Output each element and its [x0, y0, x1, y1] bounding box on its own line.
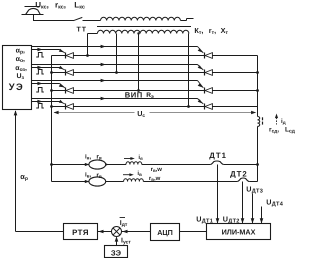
- block ИЛИ-МАХ: [207, 224, 271, 240]
- transformer tap wire 3: [138, 34, 140, 91]
- motor branch wire row B: [52, 181, 89, 183]
- thyristor left arm row 3: [65, 88, 67, 94]
- right bus wire lower: [257, 126, 259, 181]
- thyristor left arm row 2: [65, 70, 67, 76]
- cathode wire row 4: [52, 106, 66, 108]
- wire pantograph drop: [33, 15, 35, 21]
- cathode wire row 2: [52, 72, 66, 74]
- svg-text:РТЯ: РТЯ: [72, 228, 89, 237]
- svg-text:iв,: iв,: [85, 172, 92, 179]
- thyristor left arm row 4: [65, 104, 67, 110]
- wire to switch: [33, 20, 74, 22]
- gate lead left thyristor row 3: [60, 84, 65, 88]
- block РТЯ: [64, 224, 98, 240]
- right bus wire: [257, 56, 259, 117]
- svg-text:αр,: αр,: [16, 48, 25, 56]
- pantograph: [26, 8, 41, 14]
- field winding row A: [126, 162, 142, 165]
- wire armature to field coil row B: [106, 181, 124, 183]
- pulse symbol row 3: [36, 88, 44, 93]
- transformer TT primary winding: [101, 17, 181, 20]
- svg-text:rв,w: rв,w: [149, 176, 161, 182]
- output wire row 1: [212, 55, 257, 57]
- wire DT2 to bus: [249, 181, 257, 183]
- switch: [73, 17, 82, 20]
- block АЦП: [151, 224, 180, 241]
- wire UДТ4: [261, 207, 263, 224]
- thyristor right arm row 3: [204, 88, 206, 94]
- thyristor right arm row 1: [204, 53, 206, 59]
- transformer core: [97, 26, 191, 28]
- output wire row 3: [212, 90, 257, 92]
- cathode wire row 1: [52, 55, 66, 57]
- motor branch wire row A: [52, 164, 89, 166]
- svg-text:iв: iв: [137, 170, 142, 177]
- gate lead left thyristor row 2: [60, 68, 65, 70]
- svg-text:Rэ: Rэ: [146, 92, 154, 100]
- current arrow iя row A: [124, 158, 132, 160]
- thyristor right arm row 2: [204, 70, 206, 76]
- control line row 4: [32, 98, 198, 100]
- wire UДТ2 from ДТ2: [242, 182, 244, 224]
- wire switch to transformer: [83, 20, 101, 22]
- svg-text:iя: iя: [138, 154, 143, 161]
- control line row 1: [32, 46, 198, 48]
- thyristor left arm row 1: [65, 53, 67, 59]
- svg-text:αоз,: αоз,: [15, 65, 27, 73]
- cathode wire row 3: [52, 90, 66, 92]
- output wire row 2: [212, 72, 257, 74]
- svg-text:αо,: αо,: [16, 56, 25, 64]
- gate lead left thyristor row 4: [60, 102, 65, 104]
- current sensor ДТ1: [210, 161, 223, 165]
- svg-text:Uз: Uз: [16, 73, 24, 81]
- motor M2 armature: [89, 177, 106, 186]
- field winding row B: [124, 179, 144, 182]
- anode wire row 3: [73, 90, 204, 92]
- svg-text:Iуст: Iуст: [121, 237, 131, 245]
- svg-text:Iдт: Iдт: [120, 220, 128, 228]
- gate pulse line row 3: [32, 83, 60, 85]
- left bus wire: [51, 56, 53, 182]
- svg-text:rв,w: rв,w: [151, 167, 163, 173]
- label iд with arrow: [276, 118, 278, 125]
- wire АЦП to comparator: [122, 231, 151, 233]
- wire ИЛИ-МАХ to АЦП: [180, 231, 207, 233]
- gate pulse line row 1: [32, 49, 60, 51]
- svg-text:АЦП: АЦП: [157, 228, 173, 237]
- feedback wire alpha-r: [15, 111, 17, 232]
- output wire row 4: [212, 106, 257, 108]
- block УЭ: [3, 46, 32, 110]
- smoothing reactor: [258, 117, 260, 127]
- comparator node: [112, 227, 122, 237]
- anode wire row 4: [73, 106, 204, 108]
- current sensor ДТ2: [237, 178, 249, 182]
- transformer tap wire 4: [188, 34, 190, 107]
- svg-text:ВИП: ВИП: [125, 90, 143, 99]
- pulse symbol row 1: [36, 53, 44, 58]
- wire ЗЭ to comparator: [116, 237, 118, 245]
- gate lead right thyristor row 4: [198, 99, 204, 104]
- block ЗЭ: [105, 246, 128, 258]
- pulse symbol row 2: [36, 70, 44, 75]
- svg-text:ИЛИ-МАХ: ИЛИ-МАХ: [222, 227, 256, 236]
- wire comparator to РТЯ: [98, 231, 112, 233]
- gate lead right thyristor row 1: [198, 47, 204, 53]
- label Īдт: [120, 217, 125, 219]
- transformer TT secondary winding: [88, 33, 98, 35]
- anode wire row 1: [73, 55, 204, 57]
- pantograph contact wire: [25, 6, 40, 8]
- transformer tap wire 1: [87, 34, 89, 56]
- gate lead left thyristor row 1: [60, 50, 65, 53]
- motor M1 armature: [89, 160, 106, 169]
- wire field coil to DT1: [142, 164, 211, 166]
- wire armature to field coil row A: [106, 164, 126, 166]
- wire field coil to DT2: [143, 181, 237, 183]
- gate lead right thyristor row 2: [198, 65, 204, 70]
- thyristor right arm row 4: [204, 104, 206, 110]
- control line row 3: [32, 80, 198, 82]
- svg-text:iя,: iя,: [85, 153, 91, 160]
- svg-text:УЭ: УЭ: [9, 81, 25, 92]
- gate lead right thyristor row 3: [198, 81, 204, 88]
- svg-text:ДТ2: ДТ2: [230, 169, 248, 178]
- svg-text:ЗЭ: ЗЭ: [111, 248, 122, 257]
- svg-text:ДТ1: ДТ1: [209, 151, 227, 160]
- svg-text:ТТ: ТТ: [77, 26, 88, 33]
- wire UДТ1 from ДТ1: [217, 165, 219, 224]
- Uc dimension arrow: [54, 112, 134, 114]
- svg-text:Lсд: Lсд: [285, 126, 296, 134]
- anode wire row 2: [73, 72, 204, 74]
- current arrow iв row B: [123, 174, 131, 176]
- control line row 2: [32, 64, 198, 66]
- gate pulse line row 2: [32, 67, 60, 69]
- wire DT1 to bus: [224, 164, 258, 166]
- svg-text:iд: iд: [281, 118, 286, 125]
- gate pulse line row 4: [32, 101, 60, 103]
- transformer tap wire 2: [116, 34, 118, 73]
- pulse symbol row 4: [36, 104, 44, 109]
- wire UДТ3: [252, 194, 254, 224]
